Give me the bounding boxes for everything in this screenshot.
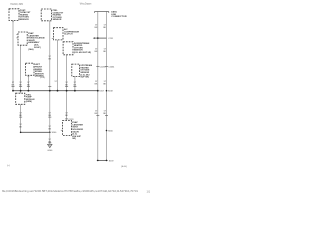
wire W5 [57, 40, 59, 91]
W1 inline connector tick [12, 86, 15, 88]
W2 inline connector tick [19, 86, 22, 88]
WR1 inline connector [96, 65, 99, 67]
L3 left junction dot [97, 160, 99, 162]
wire W7 [74, 76, 76, 90]
W2 lower connector tick [19, 116, 22, 118]
W2 wire label pair [19, 82, 22, 87]
wire WR2 [106, 12, 108, 161]
B1 label text [20, 10, 31, 21]
svg-text:G100: G100 [47, 150, 53, 152]
bus2 arrowhead [93, 37, 95, 39]
bus2 horizontal wire with arrow [94, 37, 106, 39]
svg-text:SENSOR: SENSOR [20, 19, 29, 21]
WR1 lower connector tick [96, 115, 99, 117]
BAC label text [64, 28, 80, 36]
WR2 lower connector tick [105, 115, 108, 117]
box B3 [26, 63, 34, 75]
svg-text:(GEM): (GEM) [26, 101, 32, 103]
W6 wire label pair [65, 82, 68, 87]
bottom link bar L3 [97, 159, 108, 161]
B6 label text [72, 121, 83, 140]
B1 pin tick [12, 21, 14, 23]
ground symbol [48, 144, 53, 147]
W4 wire label pair (mid) [48, 56, 51, 61]
L2 left junction dot [20, 132, 22, 134]
BUS label text [80, 64, 92, 79]
W6 inline connector tick [65, 86, 68, 88]
svg-text:(4.0L): (4.0L) [40, 77, 46, 79]
data link connector bar [95, 11, 109, 13]
WR1 wire label pair (upper) [95, 25, 99, 30]
B2 left pin ticks [16, 33, 18, 35]
W4 lower connector tick [48, 116, 51, 118]
svg-text:C1034: C1034 [108, 66, 115, 68]
wire W6 [66, 55, 68, 121]
WR2 wire label pair (upper) [103, 25, 107, 30]
W3 wire label pair [27, 82, 30, 87]
W7 wire label pair [74, 82, 77, 87]
WR1 wire label pair (third) [95, 81, 99, 86]
svg-text:(+): (+) [7, 165, 10, 167]
svg-text:SENSOR: SENSOR [53, 19, 62, 21]
ground wire label pair [48, 139, 51, 143]
WR2 inline connector [105, 65, 108, 67]
splice dot on WR2 [106, 90, 108, 92]
ground connector tick [48, 142, 51, 144]
box B1 [9, 9, 19, 21]
WR2 splice dot S160 [106, 130, 108, 132]
W4 pre-junction label pair [48, 126, 51, 130]
box B6 [63, 121, 72, 136]
svg-text:(14A): (14A) [28, 48, 34, 51]
WR2 wire label pair (third) [103, 81, 107, 86]
svg-text:CLUTCH: CLUTCH [64, 34, 73, 36]
W6 lower connector tick [65, 118, 68, 120]
WR2 wire label pair (second) [103, 48, 107, 53]
W6 lower label pair [65, 112, 68, 117]
wire W3 [27, 75, 29, 90]
W4 inline connector tick [48, 86, 51, 88]
W1 wire label pair [12, 82, 15, 87]
wire W4 [49, 21, 51, 133]
box B4 [16, 93, 25, 104]
B2 label text [28, 32, 45, 51]
BDS label text [74, 42, 91, 54]
WR1 wire label pair (second) [95, 48, 99, 53]
bus2 junction dot [97, 37, 99, 39]
svg-text:(2.3L 4X4 SUP SR): (2.3L 4X4 SUP SR) [74, 51, 91, 54]
Btop2 label text [53, 10, 64, 21]
link line L2 [21, 131, 50, 133]
W3 inline connector tick [27, 86, 30, 88]
svg-text:Wiring Diagram: Wiring Diagram [80, 3, 92, 6]
wire W1 [12, 21, 14, 91]
bus junction dots [12, 90, 99, 92]
W4 lower label pair [48, 112, 51, 117]
W2 lower label pair [19, 112, 22, 117]
DLC bar end ticks [94, 12, 96, 14]
B3 label text [35, 64, 44, 78]
svg-text:CONNECTOR: CONNECTOR [111, 16, 127, 18]
BAC left pin tick [52, 38, 54, 40]
WR1 lower label pair [95, 111, 99, 116]
ground bus line [13, 90, 98, 92]
W2 pre-junction label pair [19, 124, 22, 129]
svg-text:7/31/2019,1:39PM: 7/31/2019,1:39PM [10, 3, 23, 6]
box BUS [72, 64, 80, 76]
L3 right junction dot [106, 160, 108, 162]
DLC label text [111, 11, 127, 19]
wire W2 [20, 45, 22, 93]
svg-text:file,D2016Bodswiring.set73206.: file,D2016Bodswiring.set73206.5BT,4012vE… [2, 189, 139, 193]
wire WR1 [97, 12, 99, 161]
wire W2 lower (below B4 to L2) [20, 104, 22, 132]
box B2 [18, 32, 27, 45]
box Btop2 [41, 9, 51, 21]
W7 inline connector tick [73, 86, 76, 88]
B4 label text [26, 94, 36, 103]
B3 pin tick [28, 76, 30, 78]
svg-text:SUP SR): SUP SR) [80, 77, 89, 79]
ground wire below S100 [49, 132, 51, 144]
WR2 lower label pair [103, 111, 107, 116]
B6 left pin tick [61, 129, 63, 131]
svg-text:1/1: 1/1 [147, 189, 151, 193]
box BAC [54, 28, 64, 40]
L2 right junction dot [49, 132, 51, 134]
svg-text:(4.0L): (4.0L) [121, 166, 127, 168]
box BDS [63, 42, 73, 55]
svg-text:SOHC): SOHC) [34, 47, 41, 49]
svg-text:SR): SR) [72, 138, 76, 140]
